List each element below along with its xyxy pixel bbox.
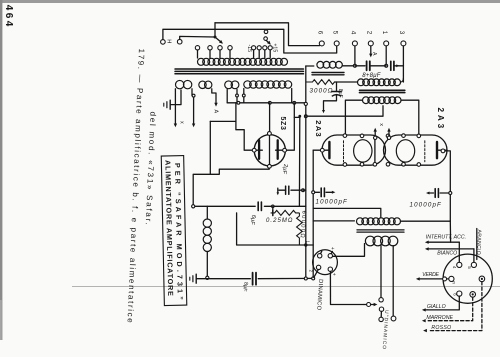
svg-text:INTERUTT. ACC.: INTERUTT. ACC.	[426, 234, 466, 240]
svg-text:ARANCIO: ARANCIO	[475, 229, 482, 255]
wire: S2 right lead to arrow A	[212, 89, 216, 103]
socket pin brown (+)	[470, 292, 476, 298]
5Z3 pin right	[283, 148, 287, 152]
capacitor 8uF electrolytic	[336, 82, 338, 92]
output tube 2A3 no.1 envelope	[322, 135, 386, 165]
svg-text:x: x	[179, 121, 185, 124]
wire: B+ from 5Z3 cathode	[193, 168, 269, 205]
wire: T2 right lead	[401, 78, 404, 82]
svg-text:A: A	[371, 52, 377, 56]
output transformer secondary	[365, 236, 375, 246]
wire: selector arrow	[215, 37, 222, 43]
wire: MARRONE line (dashed)	[428, 297, 473, 321]
resistor 3000 ohm	[306, 80, 357, 85]
wire: selector junction vertical	[214, 23, 216, 37]
junction	[449, 192, 452, 195]
terminal H right	[177, 39, 182, 44]
terminal: primary tap 4	[228, 46, 232, 50]
svg-text:GIALLO: GIALLO	[427, 304, 446, 310]
5Z3 plate left	[258, 140, 260, 159]
5Z3 pin left	[252, 148, 256, 152]
5Z3 pin bottom	[268, 164, 272, 168]
2A3 no.1 plate	[328, 142, 330, 158]
capacitor 8+8uF unit A	[355, 65, 365, 67]
speaker socket DINAMICO	[313, 250, 338, 275]
svg-text:2μF: 2μF	[281, 163, 289, 174]
junction	[304, 243, 307, 246]
wire: socket to OT secondary	[333, 244, 365, 257]
svg-text:x: x	[378, 123, 384, 126]
transformer T1 secondary S3	[225, 81, 233, 89]
wire: top loop to terminal 6	[215, 23, 320, 46]
connector: jack link	[380, 311, 382, 317]
connector: tap plug lower	[264, 37, 268, 41]
resistor 60000 ohm (vertical)	[297, 213, 303, 245]
2A3 no.2 filament ellipse	[396, 140, 414, 162]
2A3 no.1 grid (dashed)	[343, 141, 345, 162]
capacitor 8+8uF unit B	[390, 61, 392, 70]
svg-text:5: 5	[331, 31, 338, 35]
svg-text:U°DINAMICO: U°DINAMICO	[381, 310, 390, 350]
terminal: primary tap 1	[195, 46, 199, 50]
wire: ground to S1	[171, 90, 181, 105]
wire: S1 right lead to x arrow	[192, 89, 194, 124]
junction	[353, 64, 356, 67]
terminal 2	[368, 41, 373, 46]
junction	[304, 115, 307, 118]
junction	[293, 101, 296, 104]
terminal 6	[319, 41, 324, 46]
transformer T1 secondary S1 (rectifier filament)	[176, 80, 184, 88]
socket pin 6	[457, 291, 462, 296]
socket pin + top	[328, 254, 332, 258]
junction	[312, 277, 315, 280]
terminal 1	[384, 41, 389, 46]
svg-text:464: 464	[3, 5, 14, 29]
svg-text:8+8μF: 8+8μF	[362, 73, 380, 79]
socket pin red (+)	[479, 276, 485, 282]
wire: filament bus H1	[227, 102, 306, 104]
cable socket circle	[443, 254, 492, 303]
terminal 4	[352, 41, 357, 46]
wire: choke left lead	[306, 65, 314, 67]
junction	[237, 101, 240, 104]
capacitor 6uF	[257, 202, 259, 210]
ground: mains secondary	[169, 100, 171, 109]
junction	[385, 64, 388, 67]
wire: rail Rc	[312, 150, 314, 278]
wire: terminal 3 stem	[402, 46, 404, 82]
output transformer primary	[357, 218, 364, 225]
rectifier tube 5Z3 envelope	[254, 135, 285, 166]
svg-text:5Z3: 5Z3	[279, 117, 286, 131]
svg-text:10000pF: 10000pF	[316, 198, 349, 205]
wire: OT primary left	[313, 220, 354, 222]
wire: B+ node to caps	[193, 205, 255, 207]
wire: pin4 stem	[458, 242, 460, 262]
junction	[312, 191, 315, 194]
pins of 2A3 tubes	[343, 134, 347, 138]
wire: H4 jog	[294, 116, 299, 118]
wire: S4 left lead	[243, 89, 245, 103]
transformer T1 primary winding	[198, 58, 205, 65]
wire: pin5 stem	[473, 249, 475, 262]
svg-text:3: 3	[398, 31, 405, 35]
svg-text:10000pF: 10000pF	[410, 202, 443, 209]
svg-text:A: A	[212, 110, 218, 114]
wire: OT B+ center tap	[313, 208, 381, 217]
capacitor 10000pF right	[426, 192, 430, 195]
wire: terminal 1 stem	[385, 46, 387, 66]
wire: OT sec lead 2	[392, 246, 394, 317]
wire: S3 right lead	[236, 90, 238, 103]
wire: T2 sec right to 2A3 no.2 grid	[401, 100, 419, 134]
socket pin + bottom	[328, 267, 332, 271]
svg-text:6: 6	[316, 31, 323, 35]
terminal 5	[334, 41, 339, 46]
socket pin 5	[471, 262, 476, 267]
terminal: primary tap voltage 1	[252, 46, 256, 50]
wire: S4 right lead	[291, 89, 293, 103]
junction: x feed	[192, 94, 195, 97]
wire: socket bottom to plug line	[330, 273, 364, 304]
junction	[272, 205, 275, 208]
svg-text:3000Ω: 3000Ω	[310, 88, 334, 95]
junction	[268, 101, 271, 104]
svg-text:+: +	[331, 273, 337, 276]
terminal: primary tap voltage 4	[268, 46, 272, 50]
wire: OT sec lead 1	[380, 246, 382, 298]
junction	[304, 277, 307, 280]
2A3 no.1 plate pin	[320, 148, 324, 152]
junction	[236, 94, 239, 97]
transformer T1 secondary S2	[199, 81, 206, 88]
2A3 no.2 grid (dashed)	[424, 141, 426, 162]
wire: grid bias line	[306, 106, 383, 116]
svg-text:ROSSO: ROSSO	[431, 325, 451, 331]
ground: main	[195, 274, 197, 283]
wire: ground bus	[197, 278, 251, 280]
5Z3 plate right	[277, 140, 279, 159]
wire: choke right to terminal 4	[342, 65, 355, 67]
transformer T2 primary winding	[358, 79, 365, 86]
junction	[302, 189, 305, 192]
junction: selector	[214, 36, 217, 39]
svg-text:BIANCO: BIANCO	[437, 250, 457, 256]
filter choke L1	[317, 61, 324, 68]
junction	[298, 115, 301, 118]
wire: ARANCIO lead	[476, 229, 478, 260]
connector: second speaker circle	[391, 316, 396, 321]
svg-text:2A3: 2A3	[314, 120, 323, 138]
wire: INTERUTT ACC line	[428, 241, 460, 243]
svg-text:8μF: 8μF	[337, 89, 343, 98]
svg-text:H: H	[165, 39, 171, 43]
junction	[304, 102, 307, 105]
terminal: primary tap 3	[218, 46, 222, 50]
capacitor 8uF (ground bus)	[252, 273, 254, 285]
5Z3 plate left stem	[255, 149, 262, 151]
wire: choke feed vertical	[209, 121, 211, 174]
svg-text:0.25MΩ: 0.25MΩ	[266, 218, 294, 224]
resistor 0.25M ohm	[272, 206, 274, 213]
field coil (vertical)	[206, 206, 208, 219]
wire: terminal 2 arrow stem	[370, 46, 372, 54]
output tube 2A3 no.2 envelope	[384, 135, 448, 165]
transformer T2 core	[360, 89, 405, 91]
connector circle on VERDE	[443, 277, 447, 281]
5Z3 plate right stem	[276, 149, 284, 151]
2A3 no.1 filament ellipse	[354, 140, 372, 162]
wire: x arrows filament test	[374, 131, 376, 137]
connector: jack top	[379, 298, 383, 302]
title box ALIMENTATORE AMPLIFICATORE PER SAFAR MOD.731	[161, 156, 187, 306]
terminal: primary tap voltage 3	[263, 46, 267, 50]
connector: tap plug upper	[264, 30, 268, 34]
wire: 2A3 no.1 plate to rail Rc	[313, 149, 320, 151]
wire: GIALLO line	[428, 296, 460, 310]
svg-text:6: 6	[452, 293, 457, 296]
connector: plug circle	[367, 303, 371, 307]
2A3 no.2 plate	[436, 142, 438, 158]
wire: 5Z3 right pin path	[286, 103, 294, 150]
svg-text:8μF: 8μF	[241, 281, 249, 292]
wire: page fold line	[72, 285, 500, 287]
transformer T2 secondary winding	[363, 97, 370, 104]
wire: S3 left lead	[226, 90, 228, 103]
wire: S1 left lead arrow x	[174, 89, 176, 124]
wire: grid return	[237, 213, 314, 245]
connector: jack bottom	[379, 317, 383, 321]
transformer T1 core	[175, 68, 304, 70]
wire: BIANCO line	[428, 248, 474, 250]
terminal H left	[161, 40, 166, 45]
wire: 5Z3 left pin path	[236, 103, 253, 150]
svg-text:2: 2	[365, 31, 372, 35]
svg-text:5: 5	[467, 266, 472, 269]
wire: tap plug arrow	[266, 40, 269, 43]
wire: OT primary right	[401, 220, 451, 222]
wire: inter-tube filament link	[374, 136, 376, 164]
capacitor 10000pF left	[313, 191, 319, 193]
socket pin 2	[316, 265, 320, 269]
svg-text:+: +	[329, 247, 335, 250]
wire: H left up to bus	[163, 29, 337, 53]
5Z3 pin top	[268, 132, 272, 136]
junction	[192, 205, 195, 208]
capacitor 2uF	[291, 189, 303, 191]
svg-text:MARRONE: MARRONE	[426, 315, 453, 321]
socket pin 1	[318, 254, 322, 258]
connector: jack mid	[379, 307, 383, 311]
wire: VERDE line	[419, 278, 449, 280]
svg-text:2A3: 2A3	[436, 108, 445, 131]
wire: OT right down and to INTERUTT	[449, 221, 451, 242]
wire: terminal 4 stem	[354, 46, 356, 66]
socket pin n	[449, 276, 454, 281]
svg-text:del mod. «731» Safar.: del mod. «731» Safar.	[144, 111, 158, 226]
svg-text:1: 1	[381, 31, 388, 35]
junction	[206, 276, 209, 279]
svg-text:4: 4	[350, 31, 357, 35]
wire: ROSSO line (dashed)	[429, 282, 482, 331]
junction	[242, 94, 245, 97]
wire: rail Ra	[298, 116, 300, 206]
svg-text:4: 4	[452, 266, 457, 269]
svg-text:DINAMICO: DINAMICO	[315, 279, 323, 311]
svg-text:VERDE: VERDE	[422, 272, 439, 278]
svg-text:n: n	[452, 281, 457, 284]
wire: T2 sec left to 2A3 no.1 grid	[345, 100, 362, 134]
5Z3 filament center line	[269, 135, 271, 166]
2A3 no.2 plate pin	[441, 149, 445, 153]
socket pin 4	[457, 262, 462, 267]
wire: rail Rb	[305, 66, 307, 278]
wire: ground bus right	[258, 277, 313, 279]
wire: H3	[210, 120, 236, 122]
svg-text:6μF: 6μF	[249, 214, 257, 225]
svg-text:179. — Parte amplificatrice b.: 179. — Parte amplificatrice b. f. e part…	[125, 48, 146, 324]
terminal: primary tap 2	[208, 46, 212, 50]
output transformer core	[357, 229, 404, 231]
terminal 3	[401, 41, 406, 46]
wire: H right to selector junction	[180, 36, 215, 39]
wire: 5Z3 anode top	[269, 103, 271, 132]
wire: 2A3 no.2 plate lead down	[445, 151, 450, 221]
wire: T2 left lead	[335, 81, 358, 83]
transformer T1 secondary S4 (HV)	[244, 81, 251, 88]
terminal: primary tap voltage 2	[257, 46, 261, 50]
